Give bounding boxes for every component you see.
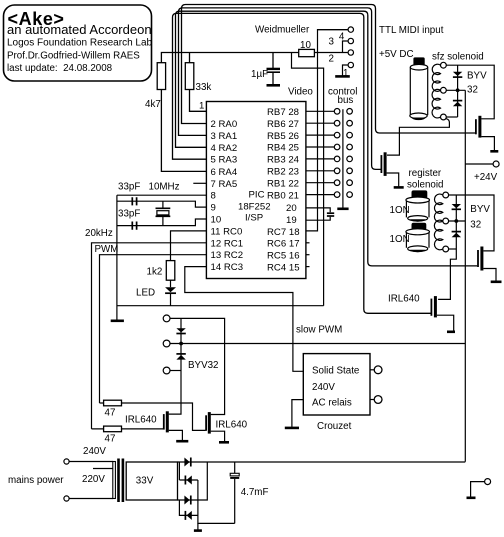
video bus circles (334, 109, 340, 198)
svg-text:BYV32: BYV32 (188, 360, 219, 371)
resistor R 33k (185, 63, 211, 93)
wire register bottom winding stub (449, 248, 457, 250)
svg-text:2 RA0: 2 RA0 (211, 119, 238, 130)
label chip part name (238, 190, 271, 224)
diode BYV32 sfz b (up) (453, 101, 462, 107)
wire pin 17 stub (306, 242, 310, 244)
svg-text:RC6 17: RC6 17 (267, 239, 300, 250)
resistor R 4k7 (145, 63, 166, 110)
svg-text:4.7mF: 4.7mF (241, 487, 269, 498)
wire pin 15 stub (306, 266, 310, 268)
resistor R 10 (299, 40, 315, 57)
node +24V terminal (493, 161, 499, 167)
svg-text:RB1 22: RB1 22 (267, 178, 299, 189)
svg-text:Weidmueller: Weidmueller (255, 25, 310, 36)
ground for Weidmueller pin1 (335, 75, 350, 78)
svg-text:PIC: PIC (249, 190, 265, 201)
wire mid ground rail (117, 305, 324, 307)
ground for Q3 (447, 330, 455, 333)
wire video line 1 to pin 18 RC7 (292, 53, 324, 306)
svg-text:10: 10 (211, 215, 222, 226)
svg-text:BYV: BYV (470, 204, 490, 215)
wire 33k to pin 1 (190, 90, 207, 112)
transistor Q4 IRL640 (125, 411, 182, 440)
connector circle 3 (348, 38, 353, 43)
wire pin 12 RC1 PWM (92, 243, 207, 429)
wire sfz freewheel diode chain (457, 65, 459, 117)
wire bridge bottom row C (178, 462, 208, 500)
wire +24V vertical rail (464, 90, 466, 462)
wire pin 20 to decoupling cap (306, 208, 330, 212)
ground for bridge minus rail (197, 523, 199, 530)
svg-text:2: 2 (329, 54, 334, 65)
svg-text:I/SP: I/SP (245, 213, 263, 224)
inductor L1 sfz coil winding bottom (432, 89, 440, 118)
wire bottom right terminal (471, 482, 485, 497)
diode BYV32 b (up) (176, 354, 185, 360)
svg-text:RB3 24: RB3 24 (267, 155, 300, 166)
svg-text:33k: 33k (196, 82, 212, 93)
wire cap to pin 19 (306, 217, 330, 220)
svg-text:Prof.Dr.Godfried-Willem RAES: Prof.Dr.Godfried-Willem RAES (7, 51, 140, 62)
capacitor C 1uF (251, 53, 280, 85)
node SSR output circle 1 (370, 369, 374, 371)
diode BYV32 register a (down) (452, 204, 461, 209)
wire pin 14 RC3 slow PWM to solid state relay (185, 267, 303, 372)
wire +24V mid rail (170, 343, 465, 345)
svg-text:RC5 16: RC5 16 (267, 251, 300, 262)
transistor Q2 register driver (381, 152, 398, 186)
connector circle 2 (348, 50, 353, 55)
svg-text:47: 47 (105, 434, 116, 445)
wire control bus common (342, 109, 344, 208)
svg-text:240V: 240V (83, 446, 106, 457)
wire 220V tap (93, 468, 113, 470)
ground for 20kHz line (111, 319, 124, 322)
diode bridge D-A (right) (184, 458, 190, 467)
svg-text:Video: Video (288, 87, 313, 98)
svg-text:bus: bus (338, 95, 354, 106)
svg-text:32: 32 (470, 220, 481, 231)
svg-text:LED: LED (136, 288, 155, 299)
wire bridge AC2 vertical (179, 500, 198, 515)
transistor Q6 register driver 2 (478, 247, 496, 281)
ground for Q4 (176, 440, 188, 443)
ground for Q1 (490, 150, 498, 153)
svg-text:Crouzet: Crouzet (317, 421, 352, 432)
svg-text:19: 19 (286, 215, 297, 226)
svg-text:RB6 27: RB6 27 (267, 119, 299, 130)
svg-text:an automated Accordeon: an automated Accordeon (7, 22, 152, 37)
svg-text:1: 1 (343, 68, 348, 79)
svg-text:10MHz: 10MHz (149, 182, 180, 193)
wire LED to ground rail (170, 293, 172, 306)
wires chip right pins to video bus circles (306, 111, 334, 194)
ground for control bus (337, 208, 348, 211)
wire Weidmueller pin4 row to video line (318, 29, 349, 31)
node junction dot register diode mid (454, 219, 458, 223)
svg-text:IRL640: IRL640 (125, 415, 157, 426)
wire output3 to diode chain (170, 370, 181, 372)
svg-text:sfz solenoid: sfz solenoid (432, 52, 484, 63)
svg-text:TTL MIDI input: TTL MIDI input (379, 25, 444, 36)
control bus circles (347, 109, 353, 198)
svg-text:33pF: 33pF (118, 182, 140, 193)
wire +5V rail (161, 53, 347, 63)
inductor L2 register coil circles (443, 192, 449, 198)
wire pin 9 OSC1 (117, 201, 206, 207)
wire register bottom winding to Q3 drain (438, 249, 456, 299)
label chip left pin names (211, 119, 244, 273)
svg-text:4k7: 4k7 (145, 99, 161, 110)
svg-text:RB5 26: RB5 26 (267, 131, 299, 142)
solenoid cylinder register 2 (406, 223, 430, 252)
transistor Q3 IRL640 (388, 294, 454, 331)
wire bridge minus rail (198, 480, 235, 523)
capacitor C 4.7mF (230, 462, 268, 523)
connector circle 1 (348, 62, 353, 67)
ground for SSR pin2 (285, 427, 299, 430)
svg-text:240V: 240V (312, 382, 335, 393)
wire 1k2 to LED (170, 280, 172, 287)
svg-text:5 RA3: 5 RA3 (211, 155, 238, 166)
svg-text:last update: 24.08.2008: last update: 24.08.2008 (7, 63, 113, 74)
wire sfz bottom winding stub (446, 116, 457, 118)
wire video line 2 tap (306, 30, 348, 231)
wire pin 11 RC0 to 1k2 (171, 231, 207, 261)
wire bridge B row (179, 479, 198, 481)
svg-text:1k2: 1k2 (147, 267, 163, 278)
op-amp U1 PIC18F252 chip body (206, 102, 306, 279)
wire bus B: RA1 pin3 to register gate (179, 8, 381, 170)
svg-text:RB7 28: RB7 28 (267, 107, 299, 118)
wire sfz top winding to Q1 drain (446, 65, 494, 119)
ground for 1uF (267, 84, 281, 87)
svg-text:PWM: PWM (95, 244, 119, 255)
solenoid cylinder register 1 (406, 190, 430, 221)
svg-text:9: 9 (211, 203, 216, 214)
svg-text:Logos Foundation Research Lab: Logos Foundation Research Lab (7, 38, 153, 49)
wire sfz center tap to +24V rail (446, 89, 465, 91)
wire mains 240V lead (69, 461, 113, 463)
transistor Q1 sfz driver (476, 116, 495, 151)
svg-text:RC7 18: RC7 18 (267, 227, 300, 238)
diode bridge D-C (right) (184, 496, 190, 505)
label chip right pin names (267, 107, 300, 274)
relay SSR1 Solid State box (303, 354, 370, 432)
ground for Q2 (394, 186, 404, 189)
svg-text:slow PWM: slow PWM (296, 325, 342, 336)
svg-text:3: 3 (329, 37, 335, 48)
svg-text:33V: 33V (136, 476, 154, 487)
title box texts (7, 9, 153, 74)
svg-text:4 RA2: 4 RA2 (211, 143, 238, 154)
node junction dot diode mid (179, 342, 183, 346)
svg-text:13 RC2: 13 RC2 (211, 250, 244, 261)
svg-text:+24V: +24V (474, 172, 498, 183)
svg-text:mains power: mains power (8, 475, 64, 486)
label connector pin numbers (329, 32, 349, 80)
svg-text:IRL640: IRL640 (216, 420, 248, 431)
node junction dot sfz diode mid (456, 88, 460, 92)
node SSR output circle 2 (370, 399, 374, 401)
svg-text:1µF: 1µF (251, 69, 268, 80)
capacitor C 33pF no.2 (132, 222, 136, 230)
wire register center tap to +24V rail (449, 220, 466, 222)
svg-text:8: 8 (211, 191, 216, 202)
svg-text:register: register (409, 168, 442, 179)
resistor R 1k2 (147, 261, 175, 281)
wire 4k7 to pin 6 RA4 (161, 90, 206, 172)
diode BYV32 a (down) (176, 328, 185, 333)
capacitor C 33pF no.1 (132, 197, 136, 205)
wire 33k top stub (189, 53, 191, 63)
wire sfz bottom winding to Q2 drain (387, 119, 449, 156)
diode BYV32 register b (up) (452, 232, 461, 238)
ground for bottom right terminal (467, 496, 476, 499)
wire bus A: RA0 pin2 to sfz gate (182, 5, 476, 134)
svg-text:32: 32 (467, 85, 478, 96)
wire Weidmueller pin1 to ground (343, 65, 349, 76)
svg-text:7 RA5: 7 RA5 (211, 179, 238, 190)
wire register top winding to Q6 drain (449, 195, 494, 251)
svg-text:18F252: 18F252 (238, 201, 271, 212)
svg-text:IRL640: IRL640 (388, 294, 420, 305)
svg-text:47: 47 (105, 408, 116, 419)
wire freewheel diode chain (169, 318, 181, 414)
wire bridge AC1 vertical (178, 462, 180, 480)
title info box (4, 5, 152, 81)
crystal X1 10MHz (156, 201, 171, 225)
resistor R 47 no.1 (104, 400, 122, 418)
connector circle 4 (348, 27, 353, 32)
svg-text:RB2 23: RB2 23 (267, 167, 299, 178)
svg-text:6 RA4: 6 RA4 (211, 167, 238, 178)
wire register freewheel diode chain (455, 195, 457, 249)
wire pin 13 RC2 PWM (100, 255, 207, 403)
ground for Q6 (491, 280, 502, 283)
transistor Q5 IRL640 (206, 412, 248, 441)
wire SSR pin2 to ground (292, 400, 303, 427)
svg-text:AC relais: AC relais (312, 398, 352, 409)
svg-text:+5V DC: +5V DC (379, 49, 414, 60)
svg-text:solenoid: solenoid (407, 180, 444, 191)
oscillator section (117, 195, 324, 319)
svg-text:11 RC0: 11 RC0 (211, 226, 243, 237)
svg-text:20: 20 (286, 203, 297, 214)
wire output1 to Q5 drain (170, 318, 225, 414)
svg-text:BYV: BYV (467, 71, 487, 82)
transformer T1 core (117, 459, 120, 503)
wire mains return lead (69, 498, 113, 500)
inductor L2 register coil winding top (434, 194, 442, 222)
diode bridge D-D (left) (185, 511, 191, 520)
node output circle 2 (163, 340, 170, 347)
diode BYV32 sfz a (down) (453, 72, 462, 77)
wire 20kHz ground line (116, 195, 118, 319)
svg-text:20kHz: 20kHz (85, 228, 113, 239)
inductor L1 sfz coil circles (441, 62, 447, 68)
wire pin 16 stub (306, 254, 310, 256)
svg-text:12 RC1: 12 RC1 (211, 238, 244, 249)
wire Weidmueller pin3 jumper (343, 41, 349, 53)
transformer T1 secondary 33V (126, 462, 177, 500)
node bottom right terminal (485, 479, 491, 485)
svg-text:3 RA1: 3 RA1 (211, 131, 238, 142)
wire pin 10 OSC2 (117, 219, 206, 226)
svg-text:RC4 15: RC4 15 (267, 263, 300, 274)
inductor L1 sfz coil winding top (432, 64, 440, 91)
wire bus D: RA3 pin5 to IRL640 Q3 gate (173, 13, 431, 313)
wire bus C: RA2 pin4 to register2 gate (176, 11, 478, 266)
battery cell +5V symbol (410, 57, 428, 120)
resistor R 47 no.2 (104, 426, 122, 444)
svg-text:220V: 220V (82, 474, 105, 485)
svg-text:4: 4 (339, 32, 345, 43)
diode bridge D-B (left) (185, 476, 191, 485)
svg-text:RB4 25: RB4 25 (267, 143, 299, 154)
node mains terminal 2 (64, 496, 69, 501)
svg-text:RB0 21: RB0 21 (267, 190, 299, 201)
LED D1 (136, 287, 176, 298)
wire rectified + rail (178, 461, 466, 463)
svg-text:10: 10 (300, 40, 311, 51)
node output circle 3 (163, 367, 170, 374)
svg-text:33pF: 33pF (118, 209, 140, 220)
svg-text:14 RC3: 14 RC3 (211, 262, 244, 273)
capacitor decoupling pin20-19 (327, 212, 334, 214)
wire pin 8 VSS to ground line (117, 194, 206, 196)
ground for Q5 (219, 441, 229, 444)
node mains terminal 1 (64, 459, 69, 464)
wire 47 no.2 to Q4 gate (92, 428, 164, 430)
transformer T1 primary (113, 462, 116, 499)
wire pin 7 RA5 stub (193, 182, 206, 184)
inductor L2 register coil winding bottom (434, 220, 442, 250)
wire +24V tap (465, 163, 493, 165)
wire 47 no.1 to Q5 gate (100, 403, 206, 430)
node output circle 1 (163, 315, 170, 322)
svg-text:1: 1 (199, 101, 204, 112)
svg-text:Solid State: Solid State (312, 366, 360, 377)
